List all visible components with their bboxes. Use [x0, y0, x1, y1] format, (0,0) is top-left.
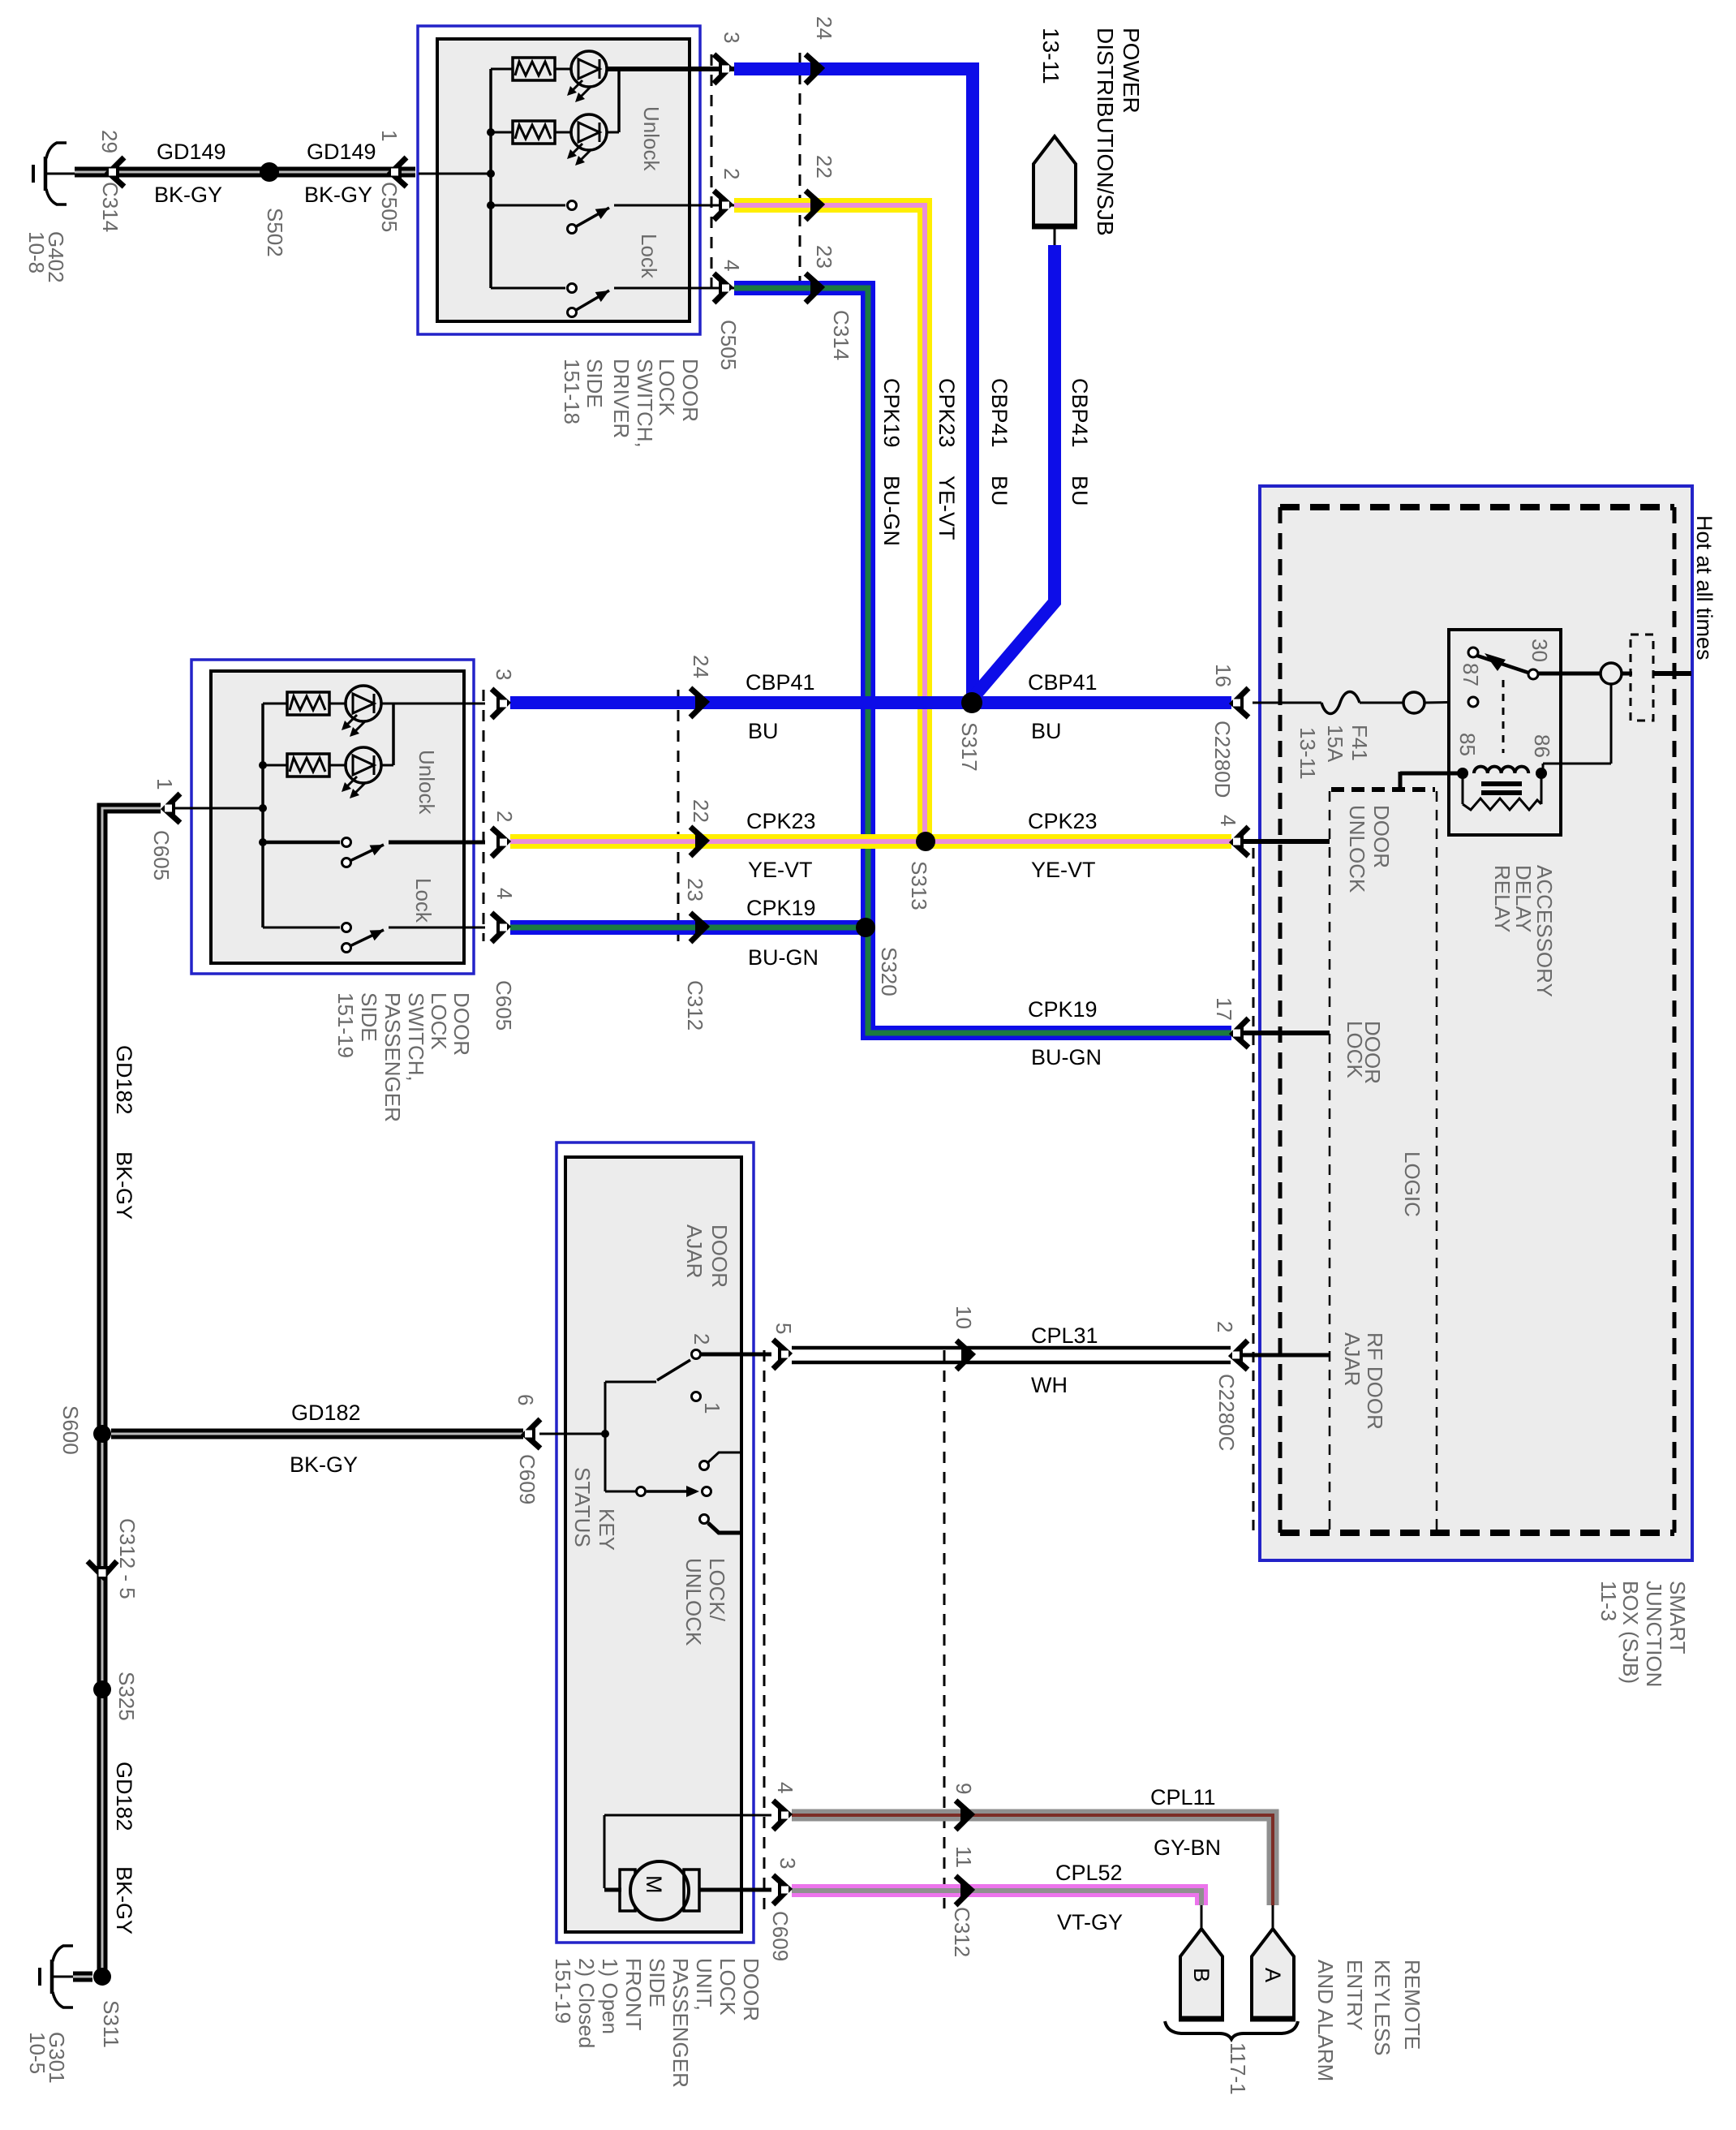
ground G402 — [44, 157, 48, 191]
svg-text:CPL11: CPL11 — [1150, 1785, 1216, 1809]
connector C605 dashed line — [483, 690, 485, 941]
svg-text:BU: BU — [748, 719, 779, 743]
relay pin 30 feed wire — [1538, 672, 1601, 676]
svg-text:BK-GY: BK-GY — [112, 1866, 136, 1934]
svg-text:1: 1 — [153, 778, 177, 790]
wire CPL52 VT-GY — [792, 1891, 1201, 1905]
svg-text:F41: F41 — [1347, 725, 1372, 761]
svg-text:CBP41: CBP41 — [746, 670, 815, 695]
svg-text:9: 9 — [952, 1783, 976, 1794]
svg-text:LOGIC: LOGIC — [1400, 1151, 1424, 1217]
svg-text:117-1: 117-1 — [1226, 2042, 1250, 2095]
wire to pin 3 — [608, 67, 690, 71]
svg-text:Unlock: Unlock — [415, 750, 439, 815]
svg-text:C2280D: C2280D — [1210, 721, 1235, 798]
svg-text:GD182: GD182 — [291, 1401, 361, 1425]
svg-text:SIDE: SIDE — [645, 1958, 669, 2007]
connector arrows layer — [714, 54, 733, 84]
svg-text:3: 3 — [492, 669, 516, 680]
connector C314 dashed line — [799, 53, 801, 292]
door lock switch passenger side box — [191, 660, 474, 974]
svg-text:DOOR: DOOR — [707, 1224, 732, 1288]
LED indicator driver 2 — [571, 114, 607, 150]
connector C505 dashed line — [711, 54, 713, 292]
svg-text:AJAR: AJAR — [1340, 1332, 1364, 1386]
svg-text:LOCK: LOCK — [655, 359, 679, 416]
svg-text:REMOTE: REMOTE — [1400, 1960, 1424, 2050]
door lock switch driver side box — [418, 26, 700, 334]
svg-text:13-11: 13-11 — [1038, 28, 1064, 84]
svg-text:JUNCTION: JUNCTION — [1642, 1581, 1666, 1687]
svg-text:2: 2 — [690, 1333, 714, 1345]
wire CPK23 YE-VT from driver pin 2 — [734, 205, 925, 837]
svg-text:SWITCH,: SWITCH, — [404, 992, 428, 1082]
splice S325 — [93, 1680, 111, 1698]
svg-text:PASSENGER: PASSENGER — [668, 1958, 693, 2088]
wire CBP41 BU from power distribution — [974, 245, 1055, 696]
svg-text:17: 17 — [1212, 997, 1236, 1021]
svg-text:CPK19: CPK19 — [879, 378, 904, 448]
svg-text:RF DOOR: RF DOOR — [1363, 1332, 1387, 1430]
svg-text:LOCK: LOCK — [715, 1958, 740, 2016]
svg-text:DOOR: DOOR — [739, 1958, 763, 2021]
svg-text:GY-BN: GY-BN — [1154, 1835, 1221, 1860]
svg-text:C312: C312 — [683, 980, 707, 1031]
svg-text:Unlock: Unlock — [639, 106, 664, 171]
passenger switch lead pin 1 — [192, 807, 263, 810]
svg-text:S320: S320 — [877, 947, 901, 996]
svg-text:BK-GY: BK-GY — [112, 1151, 136, 1220]
svg-text:A: A — [1261, 1968, 1285, 1982]
svg-text:86: 86 — [1530, 734, 1554, 758]
svg-text:S313: S313 — [907, 861, 931, 910]
svg-text:GD149: GD149 — [157, 140, 226, 164]
svg-text:23: 23 — [812, 245, 836, 269]
wire GD149 BK-GY — [75, 167, 415, 178]
svg-text:S600: S600 — [58, 1405, 83, 1455]
svg-text:S502: S502 — [263, 208, 287, 257]
svg-text:22: 22 — [812, 155, 836, 179]
svg-text:GD182: GD182 — [112, 1045, 136, 1115]
svg-text:M: M — [642, 1875, 666, 1894]
switch Unlock (driver) — [491, 204, 565, 207]
wire CBP41 BU horizontal to SJB pin 16 — [510, 696, 1231, 709]
SJB inner dashed boundary — [1280, 504, 1674, 510]
connector ring circle — [1403, 692, 1424, 713]
svg-text:1: 1 — [700, 1402, 724, 1414]
svg-text:UNLOCK: UNLOCK — [1345, 805, 1369, 893]
driver exit stubs — [690, 67, 735, 71]
wire CPL11 GY-BN — [792, 1815, 1273, 1905]
svg-text:YE-VT: YE-VT — [1031, 858, 1096, 882]
svg-text:C314: C314 — [98, 182, 122, 232]
door ajar pin 2 exit — [701, 1353, 771, 1357]
svg-text:BK-GY: BK-GY — [304, 183, 372, 207]
svg-text:16: 16 — [1211, 664, 1235, 687]
svg-text:10: 10 — [952, 1306, 976, 1329]
SJB feed DOOR LOCK — [1243, 1031, 1330, 1035]
smart junction box SJB outline — [1260, 486, 1692, 1560]
svg-text:STATUS: STATUS — [570, 1467, 595, 1547]
svg-text:FRONT: FRONT — [621, 1958, 646, 2031]
svg-text:CBP41: CBP41 — [1068, 378, 1092, 448]
svg-text:3: 3 — [720, 32, 744, 43]
svg-text:LOCK: LOCK — [427, 992, 451, 1050]
svg-text:23: 23 — [683, 878, 707, 901]
relay coil 85-86 — [1400, 772, 1460, 776]
wire CBP41 BU from driver pin 3 — [734, 69, 973, 698]
wire GD182 BK-GY horizontal to C609 pin 6 — [111, 1429, 523, 1439]
svg-text:DISTRIBUTION/SJB: DISTRIBUTION/SJB — [1093, 28, 1118, 236]
svg-text:C609: C609 — [515, 1454, 539, 1504]
splice S311 — [93, 1968, 111, 1986]
svg-text:Lock: Lock — [411, 878, 436, 923]
svg-text:KEYLESS: KEYLESS — [1370, 1960, 1394, 2056]
door lock motor M — [604, 1814, 771, 1817]
passenger pin 1 lead + C605 arrow — [166, 807, 192, 810]
svg-text:CBP41: CBP41 — [987, 378, 1012, 448]
resistor (driver lock lamp) — [491, 131, 513, 134]
svg-text:1) Open: 1) Open — [598, 1958, 622, 2034]
accessory delay relay box — [1449, 630, 1561, 835]
passenger exit stubs — [464, 703, 485, 705]
resistor (passenger lock lamp) — [263, 764, 287, 767]
fuse F41 15A — [1262, 702, 1321, 704]
svg-text:AND ALARM: AND ALARM — [1313, 1960, 1338, 2081]
resistor (passenger unlock lamp) — [263, 703, 287, 705]
svg-text:11-3: 11-3 — [1596, 1581, 1621, 1621]
switch Lock (passenger) — [263, 927, 340, 929]
svg-text:C2280C: C2280C — [1214, 1374, 1239, 1451]
svg-text:GD149: GD149 — [307, 140, 376, 164]
svg-text:LOCK: LOCK — [1343, 1021, 1367, 1078]
splice S600 — [93, 1425, 111, 1443]
svg-text:151-18: 151-18 — [560, 359, 584, 424]
door lock unit passenger side front box — [556, 1142, 754, 1943]
LED indicator passenger 1 — [346, 686, 381, 721]
svg-text:DOOR: DOOR — [678, 359, 703, 422]
door ajar switch — [605, 1381, 656, 1383]
svg-text:4: 4 — [773, 1782, 797, 1793]
svg-text:BU-GN: BU-GN — [1031, 1045, 1102, 1069]
svg-text:2: 2 — [720, 168, 744, 179]
svg-text:30: 30 — [1528, 639, 1552, 662]
svg-text:DRIVER: DRIVER — [609, 359, 634, 438]
svg-text:SIDE: SIDE — [357, 992, 381, 1042]
svg-text:4: 4 — [720, 260, 744, 271]
svg-text:CPK23: CPK23 — [746, 809, 816, 833]
svg-text:C605: C605 — [492, 980, 516, 1031]
svg-text:S325: S325 — [114, 1672, 139, 1721]
svg-text:DOOR: DOOR — [1369, 805, 1394, 868]
connector C2280 dashed line inside SJB — [1253, 848, 1255, 1530]
svg-text:YE-VT: YE-VT — [748, 858, 813, 882]
ground G301 — [50, 1960, 54, 1994]
svg-text:C314: C314 — [829, 310, 853, 360]
key status switch — [605, 1491, 636, 1493]
switch Unlock (passenger) — [263, 841, 340, 845]
svg-text:DOOR: DOOR — [449, 992, 474, 1056]
relay resistor loop — [1462, 773, 1464, 804]
svg-text:BK-GY: BK-GY — [154, 183, 222, 207]
LED indicator passenger 2 — [346, 747, 381, 783]
wire CPL31 WH horizontal — [792, 1346, 1231, 1350]
resistor (driver unlock lamp) — [491, 68, 513, 71]
svg-text:87: 87 — [1459, 663, 1483, 686]
wire GD182 BK-GY vertical (passenger pin1 to ground) — [102, 808, 161, 1977]
svg-text:RELAY: RELAY — [1490, 865, 1515, 932]
svg-text:1: 1 — [377, 130, 402, 141]
svg-text:Lock: Lock — [637, 234, 661, 279]
svg-text:POWER: POWER — [1119, 28, 1144, 114]
svg-text:CPL52: CPL52 — [1055, 1861, 1123, 1885]
svg-text:CPK23: CPK23 — [1028, 809, 1098, 833]
svg-text:CBP41: CBP41 — [1028, 670, 1098, 695]
pentagon connector A — [1272, 1905, 1274, 1929]
relay capacitor — [1481, 781, 1522, 786]
svg-text:CPK19: CPK19 — [746, 896, 816, 920]
pentagon connector B — [1201, 1905, 1203, 1929]
svg-text:BU: BU — [1068, 475, 1092, 506]
inline connector dashed box (hot feed) — [1631, 635, 1653, 721]
svg-text:UNIT,: UNIT, — [692, 1958, 716, 2011]
svg-text:BU-GN: BU-GN — [748, 945, 819, 970]
svg-text:SMART: SMART — [1665, 1581, 1690, 1655]
connector C609 dashed line — [763, 1350, 766, 1913]
driver switch internal bus — [489, 69, 492, 288]
svg-text:BU: BU — [1031, 719, 1062, 743]
svg-text:2) Closed: 2) Closed — [574, 1958, 599, 2048]
svg-text:5: 5 — [771, 1323, 796, 1334]
svg-text:29: 29 — [97, 130, 122, 153]
svg-text:BU: BU — [987, 475, 1012, 506]
svg-text:BOX (SJB): BOX (SJB) — [1618, 1581, 1643, 1684]
power distribution pentagon connector — [1054, 226, 1056, 247]
connector C312 dashed line (upper) — [677, 690, 680, 941]
svg-text:CPL31: CPL31 — [1031, 1323, 1098, 1348]
svg-text:6: 6 — [513, 1394, 538, 1405]
svg-text:11: 11 — [952, 1846, 976, 1868]
svg-text:4: 4 — [492, 888, 517, 899]
svg-text:SIDE: SIDE — [582, 359, 607, 408]
svg-text:4: 4 — [1216, 815, 1240, 826]
svg-text:UNLOCK: UNLOCK — [681, 1558, 706, 1646]
svg-text:LOCK/: LOCK/ — [705, 1558, 729, 1622]
wire CPK19 BU-GN from driver pin 4 — [734, 288, 1231, 1033]
relay actuation dashed link — [1502, 680, 1505, 753]
relay switch contacts and blade — [1477, 656, 1528, 673]
LED indicator driver 1 — [571, 51, 607, 87]
svg-text:BK-GY: BK-GY — [290, 1452, 358, 1477]
svg-text:GD182: GD182 — [112, 1762, 136, 1831]
svg-text:C609: C609 — [768, 1911, 793, 1961]
svg-text:3: 3 — [776, 1857, 800, 1869]
svg-text:CPK23: CPK23 — [935, 378, 959, 448]
svg-text:B: B — [1189, 1968, 1214, 1982]
passenger switch internal bus — [261, 704, 264, 927]
svg-text:PASSENGER: PASSENGER — [380, 992, 405, 1122]
wire CPK19 BU-GN horizontal to S320 — [510, 920, 863, 935]
svg-text:VT-GY: VT-GY — [1057, 1910, 1123, 1934]
svg-text:C505: C505 — [377, 182, 402, 232]
svg-text:S317: S317 — [957, 722, 982, 772]
driver switch lead pin 1 — [419, 173, 491, 175]
wire CPK23 YE-VT horizontal to SJB pin 4 — [510, 834, 1231, 849]
svg-text:BU-GN: BU-GN — [879, 475, 904, 546]
svg-text:151-19: 151-19 — [551, 1958, 575, 2024]
SJB feed DOOR UNLOCK — [1243, 839, 1330, 844]
svg-text:2: 2 — [492, 811, 517, 822]
svg-text:13-11: 13-11 — [1296, 727, 1320, 780]
splice S317 — [961, 692, 982, 713]
svg-text:10-8: 10-8 — [24, 231, 49, 273]
svg-text:15A: 15A — [1323, 725, 1347, 763]
svg-text:C312 - 5: C312 - 5 — [115, 1518, 140, 1599]
svg-text:C605: C605 — [149, 830, 174, 880]
splice S320 — [856, 918, 875, 937]
svg-text:10-5: 10-5 — [25, 2032, 49, 2074]
svg-text:SWITCH,: SWITCH, — [633, 359, 657, 448]
svg-text:C505: C505 — [716, 320, 741, 370]
splice S313 — [916, 832, 935, 851]
svg-text:24: 24 — [812, 16, 836, 40]
brace under connectors — [1165, 2021, 1298, 2039]
svg-text:85: 85 — [1455, 733, 1480, 756]
svg-text:S311: S311 — [99, 2000, 123, 2048]
svg-text:151-19: 151-19 — [333, 992, 358, 1058]
svg-text:C312: C312 — [950, 1907, 974, 1957]
svg-text:24: 24 — [689, 655, 713, 678]
connector C312 dashed line (lower) — [943, 1350, 946, 1908]
svg-text:Hot at all times: Hot at all times — [1692, 515, 1717, 661]
svg-text:2: 2 — [1213, 1321, 1237, 1332]
svg-text:CPK19: CPK19 — [1028, 997, 1098, 1022]
svg-text:YE-VT: YE-VT — [935, 475, 959, 540]
splice S502 — [260, 162, 279, 182]
switch Lock (driver) — [491, 287, 565, 290]
SJB feed RF DOOR AJAR — [1243, 1353, 1330, 1358]
svg-text:22: 22 — [689, 799, 713, 823]
C2280D entry — [1253, 702, 1263, 704]
svg-text:WH: WH — [1031, 1373, 1068, 1397]
svg-text:KEY: KEY — [595, 1508, 619, 1551]
svg-text:ENTRY: ENTRY — [1343, 1960, 1367, 2031]
logic block dashed box — [1331, 787, 1435, 792]
svg-text:AJAR: AJAR — [682, 1224, 707, 1278]
